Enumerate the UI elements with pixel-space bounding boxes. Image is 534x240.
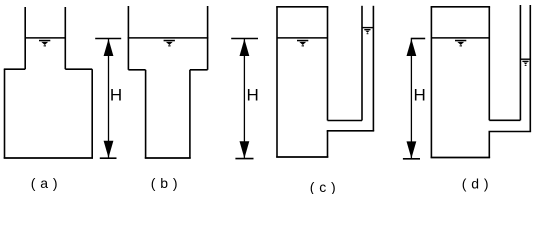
vessel (a) body left wall: [4, 69, 6, 158]
vessel (c) tank right wall upper: [327, 7, 329, 121]
dimension arrow H3 top arrowhead: [407, 39, 417, 56]
svg-text:(b): (b): [151, 175, 183, 191]
vessel (d) pipe bottom wall: [489, 131, 532, 133]
vessel (b) neck right wall: [189, 70, 191, 159]
dimension arrow H2 stem: [243, 39, 245, 159]
dimension arrow H2 top arrowhead: [240, 39, 250, 56]
vessel (c) tank right wall lower: [327, 131, 329, 158]
vessel (d) water surface symbol: [455, 40, 466, 47]
dimension arrow H3 bottom arrowhead: [407, 141, 417, 158]
dimension arrow H1 top tick: [95, 38, 121, 40]
vessel (a) right shoulder step: [65, 68, 92, 70]
vessel (c) tube left wall: [361, 6, 363, 121]
dimension arrow H3 stem: [410, 39, 412, 159]
dimension arrow H3 bottom tick: [403, 158, 420, 160]
dimension arrow H2 bottom tick: [235, 158, 253, 160]
vessel (d) tank right wall lower: [488, 132, 490, 159]
vessel (c) pipe bottom wall: [327, 130, 375, 132]
svg-text:(c): (c): [310, 179, 341, 194]
vessel (c) tube water symbol: [364, 29, 370, 34]
vessel (c) water surface symbol: [297, 40, 308, 47]
dimension arrow H2 bottom arrowhead: [240, 141, 250, 158]
vessel (a) left shoulder step: [4, 68, 25, 70]
svg-text:H: H: [414, 86, 426, 105]
dimension arrow H1 top arrowhead: [104, 39, 114, 56]
vessel (c) tank top: [276, 6, 328, 8]
vessel (d) tube water line: [520, 58, 530, 60]
vessel (c) pipe top wall: [328, 120, 363, 122]
vessel (a) bottom: [4, 157, 93, 159]
vessel (b) water surface symbol: [164, 40, 175, 47]
vessel (a) body right wall: [91, 69, 93, 158]
svg-text:H: H: [110, 85, 122, 104]
vessel (b) bottom: [145, 157, 191, 159]
vessel (a) neck right wall: [64, 7, 66, 69]
vessel (c) tank bottom: [276, 156, 328, 158]
vessel (c) tube right wall: [372, 6, 374, 131]
vessel (c) water line: [277, 37, 328, 39]
svg-text:(a): (a): [31, 175, 63, 191]
svg-text:(d): (d): [462, 176, 494, 192]
vessel (b) water line: [128, 37, 209, 39]
vessel (a) water surface symbol: [39, 40, 50, 47]
vessel (a) neck left wall: [24, 7, 26, 69]
vessel (b) outer right wall: [207, 6, 209, 70]
vessel (b) right shoulder step: [190, 69, 208, 71]
vessel (b) left shoulder step: [128, 69, 145, 71]
vessel (c) tank left wall: [276, 7, 278, 158]
vessel (d) tank bottom: [431, 157, 491, 159]
vessel (d) tube water symbol: [522, 61, 528, 66]
vessel (d) tank top: [431, 6, 491, 8]
vessel (d) pipe top wall: [489, 119, 520, 121]
vessel (d) tank right wall upper: [488, 7, 490, 121]
dimension arrow H1 stem: [108, 39, 110, 159]
vessel (d) tank left wall: [430, 7, 432, 158]
vessel (d) tube right wall: [529, 5, 531, 132]
vessel (a) water line: [25, 37, 67, 39]
dimension arrow H2 top tick: [231, 38, 258, 40]
vessel (b) outer left wall: [127, 6, 129, 70]
dimension arrow H3 top tick: [411, 38, 425, 40]
dimension arrow H1 bottom arrowhead: [104, 141, 114, 158]
vessel (d) water line: [431, 37, 489, 39]
dimension arrow H1 bottom tick: [100, 157, 117, 159]
vessel (b) neck left wall: [145, 70, 147, 159]
svg-text:H: H: [247, 86, 259, 105]
vessel (c) tube water line: [362, 27, 373, 29]
vessel (d) tube left wall: [519, 5, 521, 120]
